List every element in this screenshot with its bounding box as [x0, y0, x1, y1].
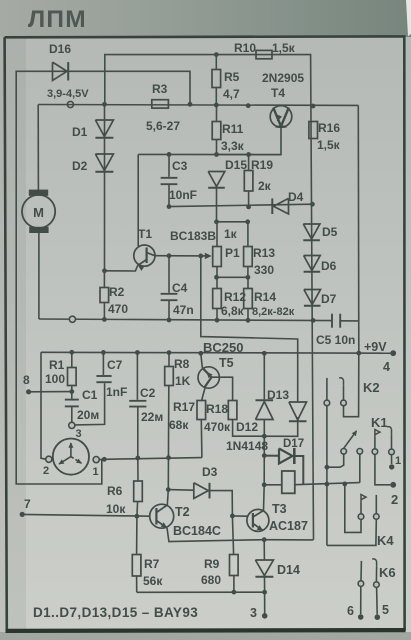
wire T4 base down-left — [217, 126, 282, 154]
diode D4 — [274, 198, 289, 214]
switch K6 right contact — [372, 559, 376, 567]
svg-text:K1: K1 — [371, 415, 388, 430]
svg-text:BC250: BC250 — [203, 340, 243, 355]
wire bottom rail y320 — [39, 319, 332, 321]
svg-text:P1: P1 — [225, 246, 240, 260]
svg-text:330: 330 — [254, 263, 274, 277]
potentiometer P1 — [213, 247, 222, 267]
wire T5 collector to R17 — [202, 387, 206, 401]
relay coil K — [282, 471, 295, 493]
wire D16 loop left vertical — [16, 71, 190, 484]
resistor R5 — [212, 70, 221, 88]
resistor R3 — [152, 100, 169, 108]
svg-text:47n: 47n — [173, 303, 194, 317]
resistor R8 — [168, 353, 170, 367]
wire terminal8 to R1 bottom — [29, 391, 72, 393]
wire R17 bottom to terminal1 rail — [200, 420, 203, 458]
svg-text:R5: R5 — [224, 70, 240, 84]
diode D13 — [289, 402, 307, 420]
wire +9V rail — [41, 351, 393, 354]
transistor T4 PNP — [270, 106, 292, 128]
wire T1 emitter to R2 — [105, 266, 138, 272]
node governor terminal 3 — [69, 422, 75, 428]
svg-text:20м: 20м — [77, 408, 99, 422]
page edge light sliver top right — [406, 0, 411, 36]
svg-text:T5: T5 — [219, 356, 234, 370]
resistor R9 — [230, 555, 239, 576]
terminal 1 — [389, 464, 394, 469]
switch K1 contact a — [341, 449, 347, 455]
svg-text:4,7: 4,7 — [223, 87, 240, 101]
svg-text:ЛПМ: ЛПМ — [28, 6, 87, 33]
svg-text:D7: D7 — [321, 292, 337, 306]
node governor terminal 1 — [93, 457, 99, 463]
svg-text:470к: 470к — [204, 420, 231, 434]
resistor R1 — [68, 368, 77, 386]
svg-text:AC187: AC187 — [269, 519, 308, 533]
darker photo band above schematic frame — [0, 0, 411, 37]
terminal 6 lead dot — [358, 614, 364, 620]
resistor R2 — [100, 288, 109, 303]
wire T3 emitter junction — [262, 537, 267, 542]
switch K6 left contact — [360, 561, 362, 581]
svg-text:10к: 10к — [106, 502, 126, 516]
svg-text:D1..D7,D13,D15 – BAY93: D1..D7,D13,D15 – BAY93 — [33, 605, 198, 620]
resistor R6 — [134, 481, 143, 502]
svg-text:2: 2 — [43, 465, 49, 477]
speed governor regulator — [53, 439, 89, 475]
border frame bottom thick edge — [6, 628, 406, 633]
svg-text:T4: T4 — [271, 86, 285, 100]
svg-text:2к: 2к — [258, 179, 272, 193]
svg-text:56к: 56к — [143, 574, 163, 588]
svg-text:8: 8 — [23, 373, 30, 387]
diode D7 — [304, 290, 321, 305]
diode D1 — [95, 120, 113, 137]
wire B T1 collector to D13 — [201, 256, 298, 402]
wire R2 leads — [103, 271, 105, 288]
transistor T3 NPN — [247, 509, 269, 531]
wire D4 rail y207 — [169, 204, 312, 206]
svg-text:+9V: +9V — [364, 340, 387, 354]
capacitor C5 — [331, 314, 333, 328]
capacitor C3 — [168, 154, 170, 176]
svg-text:1nF: 1nF — [106, 385, 127, 399]
wire R11 leads — [216, 105, 218, 122]
svg-text:1: 1 — [93, 466, 99, 478]
svg-text:5,6-27: 5,6-27 — [146, 119, 180, 133]
switch K4 right contact — [375, 495, 377, 514]
terminal 2 — [390, 482, 396, 488]
wire bottom ground rail — [137, 591, 265, 593]
svg-text:8,2к-82к: 8,2к-82к — [252, 306, 295, 318]
svg-text:3,9-4,5V: 3,9-4,5V — [47, 88, 89, 100]
svg-text:7: 7 — [24, 497, 31, 511]
potentiometer wire 1k top — [217, 221, 248, 223]
resistor R17 — [197, 401, 206, 420]
svg-text:6,8к: 6,8к — [221, 304, 245, 318]
terminal 5 lead dot — [375, 614, 381, 620]
transistor T2 NPN — [150, 504, 174, 528]
svg-text:3,3к: 3,3к — [221, 139, 245, 153]
diode D5 — [303, 224, 320, 239]
wire K2 right to +9V vertical — [344, 353, 359, 417]
wire D12 node down to relay — [263, 436, 265, 485]
svg-text:R19: R19 — [251, 158, 273, 172]
svg-text:R9: R9 — [204, 557, 220, 571]
svg-text:M: M — [33, 205, 44, 220]
wire D15 to P1 — [216, 187, 218, 222]
svg-text:K2: K2 — [363, 380, 380, 395]
capacitor C1 electrolytic — [71, 392, 73, 399]
motor M — [29, 190, 48, 196]
svg-text:2N2905: 2N2905 — [262, 71, 304, 85]
switch K1 contact b — [357, 449, 363, 455]
diode D3 — [168, 489, 193, 492]
svg-text:T2: T2 — [175, 505, 190, 519]
wiper arrow into P1 — [205, 253, 212, 259]
wire K2 to K1 left vertical — [326, 378, 328, 400]
svg-text:K6: K6 — [379, 565, 396, 580]
resistor R7 — [132, 555, 141, 577]
svg-text:R3: R3 — [152, 82, 168, 96]
switch K1 contact c with P flag — [375, 430, 380, 438]
transistor T1 NPN — [137, 154, 139, 246]
wire T2 emitter — [167, 528, 264, 542]
svg-text:3: 3 — [76, 428, 82, 440]
svg-text:R6: R6 — [107, 484, 123, 498]
svg-text:T1: T1 — [138, 227, 152, 241]
resistor R10 — [256, 50, 272, 58]
svg-text:D3: D3 — [202, 465, 218, 479]
wire R19 leads — [248, 155, 250, 171]
wire C5 to right vertical — [340, 320, 358, 322]
diode D17 bold — [264, 455, 279, 457]
wire R5 leads — [215, 55, 217, 70]
resistor R14 — [244, 289, 253, 309]
wire terminal7 to T2 base — [22, 514, 150, 516]
wire terminal1 rail — [104, 458, 202, 460]
junction D16 drop — [188, 102, 193, 107]
svg-text:R2: R2 — [109, 285, 125, 299]
capacitor C7 — [102, 352, 104, 375]
wire R12 R14 leads — [216, 277, 218, 288]
svg-text:C3: C3 — [172, 159, 188, 173]
wire R7 leads — [136, 516, 138, 554]
wire tall right vertical — [357, 105, 360, 353]
wire terminal 3 lead — [264, 592, 266, 615]
svg-text:C1: C1 — [82, 388, 98, 402]
wire R9 bottom lead — [233, 576, 235, 593]
resistor R19 — [244, 171, 253, 192]
transistor T5 PNP — [198, 367, 219, 388]
diode D14 — [263, 540, 265, 560]
svg-text:D1: D1 — [72, 125, 88, 139]
wire T3 base from D3 — [232, 515, 247, 517]
svg-text:100: 100 — [45, 372, 65, 386]
wire K1c down to terminal 2 — [375, 455, 391, 485]
wire K1d to terminal 1 — [391, 455, 393, 464]
svg-text:D14: D14 — [277, 563, 300, 577]
terminal 8 — [26, 389, 31, 394]
wire base rail y154 — [138, 153, 281, 155]
wire main top rail y104 — [38, 104, 358, 107]
svg-text:68к: 68к — [169, 418, 189, 432]
switch K1 contact d — [387, 427, 391, 435]
switch K2 left contact — [324, 400, 330, 406]
svg-text:R11: R11 — [222, 122, 244, 136]
svg-text:R13: R13 — [253, 246, 275, 260]
svg-text:R16: R16 — [318, 121, 340, 135]
svg-text:470: 470 — [108, 302, 128, 316]
svg-text:D5: D5 — [322, 225, 338, 239]
svg-text:R10: R10 — [234, 41, 256, 55]
wire node3 to C7 bottom — [75, 383, 105, 425]
wire mid junction y277 — [217, 276, 248, 278]
wire K1b down to relay rail — [359, 454, 361, 482]
wire R8 to T2 collector node — [167, 386, 170, 490]
wire T3 collector — [263, 485, 266, 511]
svg-text:5: 5 — [382, 603, 389, 617]
node open circle on bottom rail — [69, 316, 75, 322]
terminal 3 — [262, 613, 268, 619]
diode D2 — [95, 154, 113, 171]
wire governor terminal2 branch — [41, 352, 46, 459]
resistor R18 — [228, 401, 237, 420]
svg-text:D17: D17 — [283, 438, 304, 450]
svg-text:4: 4 — [383, 360, 390, 374]
wire upper rail y54 — [105, 55, 311, 106]
svg-text:2: 2 — [391, 492, 398, 507]
resistor R11 — [212, 122, 221, 140]
photo strip below frame bottom — [0, 632, 411, 640]
wire D12 D13 bottom join — [233, 417, 298, 436]
svg-text:R18: R18 — [206, 402, 228, 416]
svg-text:C4: C4 — [172, 281, 188, 295]
svg-text:D6: D6 — [321, 259, 337, 273]
wire K4 left branch from relay rail — [345, 484, 361, 533]
svg-text:C2: C2 — [140, 386, 156, 400]
svg-text:6: 6 — [347, 604, 354, 618]
svg-text:C5 10n: C5 10n — [316, 333, 355, 347]
svg-text:22м: 22м — [141, 410, 163, 424]
diode D6 — [304, 256, 321, 271]
wire D1 D2 string vertical — [104, 104, 106, 270]
wire governor t1 junction — [99, 458, 104, 460]
diode D16 — [53, 62, 68, 80]
svg-text:BC183B: BC183B — [170, 229, 216, 243]
capacitor C4 — [168, 256, 170, 293]
svg-text:D13: D13 — [267, 388, 289, 402]
node 3.9-4.5V open circle — [67, 101, 73, 107]
wire K1a to left vertical — [327, 454, 344, 467]
svg-text:1: 1 — [395, 455, 401, 467]
svg-text:1,5к: 1,5к — [272, 41, 296, 55]
diode D12 — [263, 353, 265, 399]
svg-text:C7: C7 — [107, 358, 123, 372]
wire T5 base to R18 — [212, 377, 233, 400]
svg-text:680: 680 — [201, 573, 221, 587]
svg-text:1к: 1к — [224, 227, 238, 241]
svg-text:D2: D2 — [72, 159, 88, 173]
switch K4 left contact with P flag — [361, 495, 366, 503]
left margin shading — [0, 37, 26, 632]
svg-text:10nF: 10nF — [169, 188, 197, 202]
capacitor C2 — [136, 353, 138, 400]
wire R6 leads — [137, 458, 139, 481]
svg-text:1,5к: 1,5к — [317, 138, 341, 152]
node governor terminal 2 — [46, 456, 52, 462]
wire right string vertical R16 D5 D6 D7 — [311, 106, 314, 540]
wire T3 emitter to right vertical — [264, 539, 313, 541]
switch K2 right contact — [339, 378, 343, 386]
wire D3 to T3 base and R9 — [209, 491, 232, 516]
wire K4 right to lower horizontal — [327, 519, 376, 545]
switch K1 moving arm — [344, 431, 357, 448]
resistor R12 — [213, 289, 222, 309]
wire T1 collector to P1 wiper — [155, 255, 208, 257]
svg-text:1K: 1K — [175, 374, 191, 388]
resistor R13 — [244, 247, 253, 267]
diode D15 — [208, 172, 225, 187]
svg-text:D12: D12 — [236, 420, 258, 434]
svg-text:D16: D16 — [49, 42, 71, 56]
resistor R16 — [309, 122, 318, 139]
wire T2 collector to D3 node — [167, 490, 168, 505]
motor feed wire — [37, 105, 39, 191]
svg-text:3: 3 — [250, 606, 257, 620]
svg-text:R7: R7 — [144, 557, 160, 571]
svg-text:1N4148: 1N4148 — [226, 439, 268, 453]
svg-text:K4: K4 — [377, 533, 394, 548]
svg-text:R14: R14 — [254, 290, 276, 304]
svg-text:D4: D4 — [288, 190, 304, 204]
wire P1 R13 leads — [216, 222, 218, 247]
terminal 7 — [20, 512, 25, 517]
wire motor to bottom rail — [38, 233, 40, 319]
terminal +9V — [390, 350, 396, 356]
wire relay rail — [264, 484, 282, 486]
svg-text:R17: R17 — [173, 400, 195, 414]
svg-text:R8: R8 — [174, 357, 190, 371]
svg-text:R1: R1 — [49, 358, 65, 372]
svg-text:BC184C: BC184C — [173, 524, 221, 538]
svg-text:T3: T3 — [272, 502, 287, 516]
